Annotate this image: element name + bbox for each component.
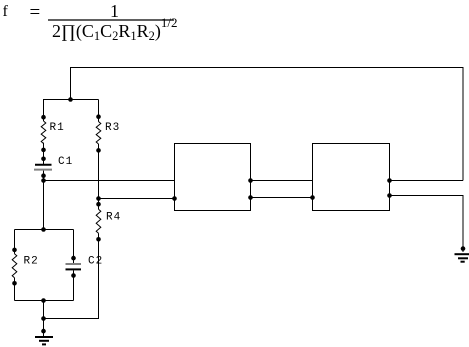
wire left edge upper lead bbox=[14, 230, 16, 254]
wire C1 down to R2/C2 loop top bbox=[43, 171, 45, 230]
node dot R4 pin bottom bbox=[96, 237, 101, 242]
wire right edge lower lead bbox=[73, 270, 75, 300]
node dot C1 pin bottom bbox=[41, 173, 46, 178]
ground left symbol bbox=[35, 337, 53, 344]
svg-text:R3: R3 bbox=[105, 122, 120, 134]
wire left edge lower lead bbox=[14, 278, 16, 301]
wire box2 output lower to right ground bbox=[390, 196, 464, 253]
formula f = 1/(2*Pi*(C1C2R1R2)^(1/2)) bbox=[3, 3, 8, 21]
resistor R3 bbox=[96, 122, 101, 144]
wire node bar above R1/R3 bbox=[43, 99, 99, 101]
wire R3 branch upper lead bbox=[98, 100, 100, 122]
node dot box2 lower input bbox=[310, 195, 315, 200]
formula numerator 1 bbox=[110, 1, 119, 22]
node dot box1 output lower bbox=[248, 195, 253, 200]
wire R3 down to R4 bbox=[98, 144, 100, 209]
node dot R2 pin top bbox=[12, 248, 17, 253]
wire box1 to box2 lower bbox=[251, 197, 313, 199]
node dot R2 pin bottom bbox=[12, 281, 17, 286]
svg-text:R2: R2 bbox=[24, 256, 39, 268]
node dot loop bottom junction bbox=[41, 298, 46, 303]
R2/C2 loop: top edge bbox=[15, 229, 74, 231]
wire box2 output upper to feedback bbox=[390, 180, 464, 182]
node dot R4 pin top bbox=[96, 202, 101, 207]
wire C1-bottom node to box1 input bbox=[44, 180, 175, 182]
svg-text:R4: R4 bbox=[106, 212, 121, 224]
R2/C2 loop: bottom edge bbox=[15, 300, 74, 302]
node dot R1 pin top bbox=[41, 115, 46, 120]
node dot top junction bbox=[68, 97, 73, 102]
node dot R3 pin bottom bbox=[96, 148, 101, 153]
formula denominator bbox=[52, 21, 178, 42]
box U2 bbox=[313, 144, 390, 211]
capacitor C2 bbox=[66, 264, 82, 269]
svg-text:C2: C2 bbox=[88, 256, 103, 268]
node dot R3 pin top bbox=[96, 114, 101, 119]
node dot box2 output upper bbox=[387, 178, 392, 183]
node dot ground wire junction bbox=[41, 316, 46, 321]
wire right edge upper lead bbox=[73, 230, 75, 264]
wire R4 down and left to ground node bbox=[44, 233, 99, 318]
node dot loop top junction bbox=[41, 227, 46, 232]
node dot box1 lower input bbox=[172, 196, 177, 201]
resistor R1 bbox=[41, 121, 46, 143]
svg-text:C1: C1 bbox=[58, 156, 73, 168]
wire top feedback: node to top-right bbox=[71, 68, 464, 181]
wire R1 to C1 bbox=[43, 143, 45, 164]
node dot R3/R4 junction bbox=[96, 196, 101, 201]
wire loop bottom to ground bbox=[43, 301, 45, 337]
node dot box2 output lower bbox=[387, 193, 392, 198]
node dot C1/wire junction bbox=[41, 178, 46, 183]
formula fraction bar bbox=[48, 19, 174, 21]
wire node to box1 lower input bbox=[99, 198, 175, 200]
wire R1 branch upper lead bbox=[43, 100, 45, 122]
node dot R1 pin bottom bbox=[41, 148, 46, 153]
node dot C1 pin top bbox=[41, 157, 46, 162]
resistor R4 bbox=[96, 209, 101, 233]
wire box1 to box2 upper bbox=[251, 180, 313, 182]
node dot ground left pin bbox=[41, 329, 46, 334]
resistor R2 bbox=[12, 254, 17, 278]
node dot C2 pin top bbox=[71, 256, 76, 261]
box U1 bbox=[175, 144, 251, 211]
capacitor C1 bbox=[34, 165, 52, 170]
ground right symbol bbox=[455, 254, 469, 262]
node dot ground right pin bbox=[461, 246, 466, 251]
node dot C2 pin bottom bbox=[71, 273, 76, 278]
svg-text:R1: R1 bbox=[50, 122, 65, 134]
node dot box1 output upper bbox=[248, 178, 253, 183]
